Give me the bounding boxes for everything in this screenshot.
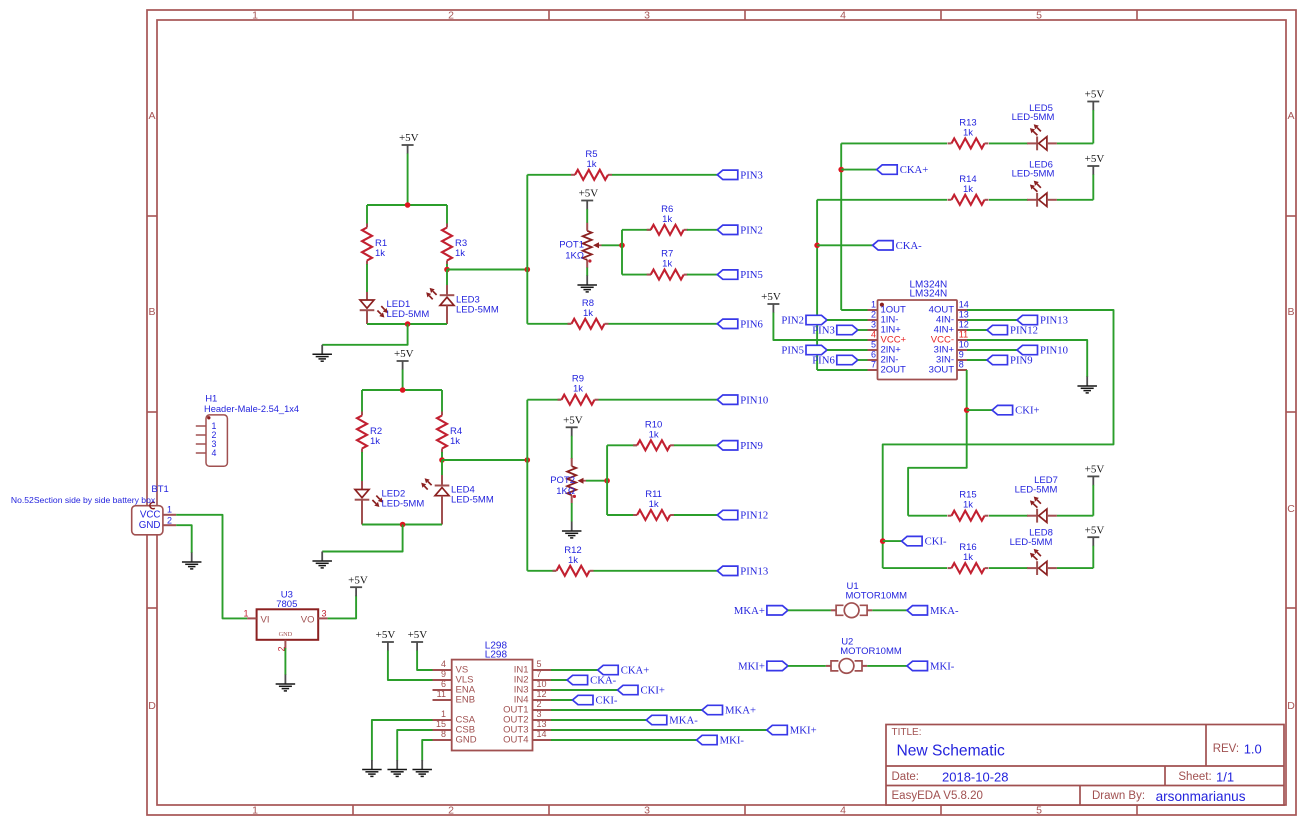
svg-text:5: 5: [537, 659, 542, 669]
wire R7 to PIN5: [687, 274, 717, 276]
wire OUT4 to MKI- flag: [551, 739, 697, 741]
junction CKI-: [880, 538, 886, 544]
wire R10 row left: [607, 444, 637, 446]
net flag MKA- at OUT2: [646, 715, 698, 727]
svg-text:Drawn By:: Drawn By:: [1092, 790, 1145, 802]
wire R13 row: [841, 142, 947, 144]
svg-text:+5V: +5V: [761, 291, 781, 303]
net flag PIN6: [717, 318, 763, 330]
LM324 pin 1 1OUT: [868, 299, 907, 315]
wire R6 row left: [622, 229, 651, 231]
svg-text:MKI-: MKI-: [930, 661, 955, 673]
svg-text:PIN6: PIN6: [812, 355, 835, 367]
+5V power flag LED5: [1085, 89, 1105, 111]
svg-text:3: 3: [644, 10, 650, 22]
column labels bottom: [252, 805, 1042, 817]
svg-text:1: 1: [252, 10, 258, 22]
wire R15 row left: [908, 515, 947, 517]
svg-text:PIN10: PIN10: [740, 394, 768, 406]
junction R4 bottom: [439, 457, 445, 463]
svg-text:LED-5MM: LED-5MM: [451, 495, 494, 506]
svg-text:6: 6: [871, 349, 876, 359]
LED LED8 LED-5MM: [1010, 528, 1057, 575]
svg-text:MKA-: MKA-: [669, 715, 698, 727]
wire R11 row left: [607, 514, 637, 516]
resistor R12: [553, 545, 594, 576]
wire R7 row left: [622, 274, 651, 276]
svg-text:D: D: [148, 700, 156, 712]
svg-text:MKA-: MKA-: [930, 605, 959, 617]
svg-text:2: 2: [448, 10, 454, 22]
H1 pin 4: [196, 448, 217, 458]
L298 pin 4 VS: [433, 659, 469, 675]
wire R1 upper leg: [366, 205, 368, 224]
wire CKI- node to flag: [883, 540, 902, 542]
wire LED3 upper lead: [446, 270, 448, 287]
svg-text:3: 3: [322, 608, 327, 618]
wire POT1 wiper to node: [602, 244, 623, 246]
svg-text:CKA-: CKA-: [896, 240, 923, 252]
wire pin13 to PIN13 flag: [967, 319, 1017, 321]
ground POT2: [562, 522, 582, 538]
svg-text:14: 14: [537, 729, 547, 739]
svg-text:arsonmarianus: arsonmarianus: [1156, 789, 1246, 804]
wire LED5 to +5V: [1057, 142, 1093, 144]
wire PIN2 flag to pin2: [827, 319, 868, 321]
ground BT1: [182, 553, 202, 569]
svg-text:CKA+: CKA+: [621, 665, 650, 677]
resistor R7: [647, 249, 688, 280]
LM324 pin 6 2IN-: [868, 349, 899, 365]
L298 pin 2 OUT1: [503, 699, 551, 715]
svg-text:1k: 1k: [649, 429, 659, 440]
potentiometer POT2 1KOhm: [550, 458, 586, 503]
wire BT1 VCC to U3 VI: [176, 515, 247, 619]
svg-text:2: 2: [167, 515, 172, 525]
svg-text:LED-5MM: LED-5MM: [1012, 169, 1055, 180]
+5V power flag LM324 VCC+: [761, 291, 781, 313]
junction ladder1 top: [405, 202, 411, 208]
LM324 pin 4 VCC+: [868, 329, 907, 345]
svg-text:TITLE:: TITLE:: [892, 727, 922, 738]
resistor R11: [633, 489, 674, 520]
wire U3 pin2 to ground: [284, 648, 286, 675]
U3 pin 3 VO: [301, 608, 328, 625]
U3 pin 2 vertical: [277, 640, 287, 652]
resistor R3: [442, 224, 467, 265]
svg-text:Header-Male-2.54_1x4: Header-Male-2.54_1x4: [204, 404, 299, 414]
svg-text:VCC: VCC: [140, 509, 161, 520]
wire R10 to PIN9: [674, 444, 717, 446]
regulator U3 7805 body: [257, 609, 319, 640]
wire ladder1 to ground: [322, 324, 407, 345]
wire CKA- to flag: [817, 244, 873, 246]
net flag CKA+: [877, 164, 929, 176]
net flag PIN5 to 2IN+: [781, 345, 827, 357]
svg-text:GND: GND: [139, 520, 161, 531]
svg-text:MKA+: MKA+: [734, 605, 765, 617]
svg-text:PIN13: PIN13: [740, 565, 768, 577]
column ticks top band: [353, 10, 1137, 20]
wire PIN3 flag to pin3: [858, 329, 868, 331]
wire R5 to PIN3: [612, 174, 717, 176]
wire R8 to PIN6: [609, 323, 718, 325]
IC L298 body: [452, 660, 533, 751]
junction V1 at ladder1: [525, 267, 531, 273]
net flag PIN2 to 1IN-: [781, 315, 827, 327]
svg-text:CKI+: CKI+: [641, 685, 665, 697]
net flag MKI- at U2: [907, 661, 955, 673]
net flag PIN9: [987, 355, 1033, 367]
wire R14 row: [817, 199, 947, 201]
svg-text:1k: 1k: [662, 259, 672, 270]
wire ladder1 bottom rail: [367, 323, 447, 325]
column labels top: [252, 10, 1042, 22]
LED LED4 LED-5MM: [421, 475, 494, 525]
LM324 pin 10 3IN+: [934, 339, 969, 355]
+5V power flag LED6: [1085, 153, 1105, 175]
junction ladder2 bottom: [400, 522, 406, 528]
+5V power flag L298 VS: [408, 629, 428, 651]
svg-text:PIN10: PIN10: [1040, 345, 1068, 357]
svg-text:C: C: [1287, 503, 1295, 515]
wire +5V to VCC+ pin4: [773, 313, 867, 341]
net flag MKA+ at U1: [734, 605, 788, 617]
net flag CKA-: [873, 240, 923, 252]
wire R14 to LED6: [989, 199, 1028, 201]
svg-text:B: B: [1287, 306, 1294, 318]
svg-text:1: 1: [243, 608, 248, 618]
wire IN4 to CKI- flag: [551, 699, 573, 701]
svg-text:2: 2: [448, 805, 454, 817]
svg-text:LED-5MM: LED-5MM: [382, 498, 425, 509]
resistor R10: [633, 419, 674, 450]
svg-text:POT2: POT2: [550, 475, 575, 486]
wire IN3 to CKI+ flag: [551, 689, 618, 691]
svg-text:1k: 1k: [586, 159, 596, 170]
net flag PIN10: [1017, 345, 1068, 357]
svg-text:ENB: ENB: [456, 695, 476, 706]
wire R6 to PIN2: [687, 229, 717, 231]
junction R3 bottom: [444, 267, 450, 273]
svg-text:4: 4: [871, 329, 876, 339]
wire R4 to node: [441, 452, 443, 460]
wire IN1 to CKA+ flag: [551, 669, 598, 671]
wire R12 to PIN13: [594, 570, 718, 572]
wire OUT3 to MKI+ flag: [551, 729, 767, 731]
L298 pin 3 OUT2: [503, 709, 551, 725]
net flag PIN3 to 1IN+: [812, 325, 858, 337]
net flag CKA- at IN2: [567, 675, 617, 687]
svg-text:1k: 1k: [450, 436, 460, 447]
svg-text:+5V: +5V: [1085, 89, 1105, 101]
svg-text:1: 1: [167, 505, 172, 515]
svg-text:VO: VO: [301, 615, 315, 626]
wire PIN6 flag to pin6: [858, 359, 868, 361]
svg-text:+5V: +5V: [408, 629, 428, 641]
wire R16 to LED8: [989, 567, 1028, 569]
wire pin12 to PIN12 flag: [967, 329, 987, 331]
H1 pin 2: [196, 430, 217, 440]
svg-text:9: 9: [441, 669, 446, 679]
wire ladder1 top rail: [367, 204, 447, 206]
IC LM324N body: [878, 300, 958, 380]
LM324 pin 3 1IN+: [868, 319, 902, 335]
svg-text:CKA+: CKA+: [900, 164, 929, 176]
wire CKA- rail to pin7: [817, 369, 867, 371]
svg-text:12: 12: [537, 689, 547, 699]
svg-text:+5V: +5V: [1085, 464, 1105, 476]
svg-text:1k: 1k: [662, 214, 672, 225]
LED LED7 LED-5MM: [1015, 475, 1058, 522]
wire MKI+ to U2: [788, 665, 826, 667]
LM324 pin 11 VCC-: [931, 329, 968, 345]
wire R5 row left: [527, 174, 571, 176]
motor U2 MOTOR10MM: [826, 636, 902, 673]
wire LED4 upper lead: [441, 460, 443, 476]
net flag MKI+ at U2: [738, 661, 788, 673]
svg-text:1.0: 1.0: [1244, 741, 1262, 756]
resistor R6: [647, 204, 688, 235]
junction CKI+: [964, 407, 970, 413]
svg-text:LED-5MM: LED-5MM: [456, 304, 499, 315]
svg-text:PIN2: PIN2: [781, 315, 804, 327]
wire CKA+ rail vertical: [840, 143, 842, 310]
svg-text:PIN5: PIN5: [781, 345, 804, 357]
net flag PIN5: [717, 269, 763, 281]
+5V power flag ladder1: [399, 132, 419, 154]
svg-text:EasyEDA V5.8.20: EasyEDA V5.8.20: [892, 790, 983, 802]
net flag PIN10: [717, 394, 768, 406]
net flag MKI+ at OUT3: [767, 725, 817, 737]
wire R8 row left: [527, 323, 571, 325]
resistor R2: [357, 412, 382, 453]
LM324 pin 2 1IN-: [868, 309, 899, 325]
svg-text:3OUT: 3OUT: [929, 365, 955, 376]
svg-text:CKI-: CKI-: [596, 695, 618, 707]
junction POT1 node: [619, 243, 625, 249]
svg-text:+5V: +5V: [394, 348, 414, 360]
junction ladder2 top: [400, 387, 406, 393]
wire R9 row left: [527, 399, 561, 401]
LM324 pin 12 4IN+: [934, 319, 969, 335]
svg-text:1k: 1k: [573, 384, 583, 395]
title block outline: [886, 725, 1284, 806]
BT1 pin 2: [163, 515, 176, 525]
resistor R9: [558, 374, 599, 405]
svg-text:PIN9: PIN9: [740, 440, 763, 452]
svg-text:PIN12: PIN12: [1010, 325, 1038, 337]
svg-text:1k: 1k: [375, 248, 385, 259]
wire R11 to PIN12: [674, 514, 717, 516]
row labels left: [148, 110, 156, 712]
svg-text:1KΩ: 1KΩ: [556, 486, 575, 497]
svg-text:A: A: [1287, 110, 1294, 122]
wire CSB to ground: [397, 730, 432, 761]
wire +5V to VS: [417, 651, 432, 671]
svg-text:8: 8: [441, 729, 446, 739]
wire R12 row left: [527, 570, 556, 572]
L298 pin 1 CSA: [433, 709, 476, 725]
ground LM324 VCC-: [1077, 377, 1097, 393]
wire POT1 to ground: [586, 268, 588, 277]
svg-text:B: B: [148, 306, 155, 318]
net flag PIN3: [717, 169, 763, 181]
wire POT2 to ground: [571, 503, 573, 522]
svg-text:5: 5: [1036, 10, 1042, 22]
net flag CKA+ at IN1: [598, 665, 650, 677]
svg-text:CKA-: CKA-: [590, 675, 617, 687]
wire pin8 down to CKI+ node: [908, 370, 967, 516]
svg-text:1k: 1k: [583, 308, 593, 319]
svg-text:1KΩ: 1KΩ: [565, 251, 584, 262]
L298 pin 7 IN2: [514, 669, 551, 685]
L298 pin 9 VLS: [433, 669, 474, 685]
wire ladder2 top rail: [362, 389, 442, 391]
svg-text:REV:: REV:: [1213, 743, 1239, 755]
svg-text:2: 2: [537, 699, 542, 709]
ground POT1: [577, 276, 597, 292]
svg-text:4: 4: [441, 659, 446, 669]
svg-text:1k: 1k: [963, 500, 973, 511]
svg-text:4: 4: [840, 805, 846, 817]
svg-text:VI: VI: [261, 615, 270, 626]
svg-text:1: 1: [871, 299, 876, 309]
net flag MKA- at U1: [907, 605, 959, 617]
svg-text:PIN3: PIN3: [812, 325, 835, 337]
svg-text:1k: 1k: [370, 436, 380, 447]
LM324 pin 14 4OUT: [929, 299, 969, 315]
wire pin10 to PIN10 flag: [967, 349, 1017, 351]
svg-text:5: 5: [871, 339, 876, 349]
wire MKA+ to U1: [788, 609, 831, 611]
svg-text:MKI+: MKI+: [738, 661, 765, 673]
svg-text:PIN3: PIN3: [740, 169, 763, 181]
svg-text:MKA+: MKA+: [725, 705, 756, 717]
svg-text:+5V: +5V: [1085, 153, 1105, 165]
resistor R4: [437, 412, 462, 453]
net flag PIN12: [987, 325, 1038, 337]
svg-text:7805: 7805: [276, 599, 297, 610]
wire VCC- pin11 to ground: [967, 340, 1087, 377]
BT1 pin 1: [163, 505, 176, 515]
resistor R5: [571, 149, 612, 180]
svg-text:1: 1: [441, 709, 446, 719]
svg-text:L298: L298: [485, 649, 508, 660]
svg-text:7: 7: [871, 359, 876, 369]
junction ladder1 bottom: [405, 321, 411, 327]
U3 pin 1 VI: [243, 608, 269, 625]
row ticks left band: [147, 216, 157, 608]
svg-text:2018-10-28: 2018-10-28: [942, 769, 1009, 784]
LED LED2 LED-5MM: [355, 481, 425, 525]
svg-text:OUT4: OUT4: [503, 735, 528, 746]
net flag PIN13: [1017, 315, 1068, 327]
net flag CKI- at IN4: [573, 695, 618, 707]
ground ladder2: [312, 552, 332, 568]
svg-text:7: 7: [537, 669, 542, 679]
resistor R15: [948, 490, 989, 521]
+5V power flag LED7: [1085, 464, 1105, 486]
LED LED1 LED-5MM: [360, 292, 430, 324]
wire GND pin to ground: [422, 740, 432, 761]
svg-text:PIN13: PIN13: [1040, 315, 1068, 327]
+5V power flag ladder2: [394, 348, 414, 370]
net flag CKI-: [902, 536, 947, 548]
L298 pin 6 ENA: [433, 679, 476, 695]
svg-text:+5V: +5V: [563, 415, 583, 427]
wire BT1 GND to ground: [176, 525, 192, 553]
LM324 pin 13 4IN-: [936, 309, 969, 325]
net flag PIN6 to 2IN-: [812, 355, 858, 367]
svg-text:New Schematic: New Schematic: [897, 742, 1006, 759]
svg-text:10: 10: [537, 679, 547, 689]
wire node to V1 rail: [447, 269, 527, 271]
wire POT2 node vertical: [606, 445, 608, 515]
LED LED3 LED-5MM: [426, 285, 499, 324]
ground L298 GND: [412, 760, 432, 776]
junction CKA+: [838, 167, 844, 173]
svg-text:1k: 1k: [568, 555, 578, 566]
H1 pin 3: [196, 439, 217, 449]
+5V power flag L298 VLS: [376, 629, 396, 651]
svg-text:1k: 1k: [649, 499, 659, 510]
svg-text:GND: GND: [456, 735, 477, 746]
svg-text:PIN6: PIN6: [740, 318, 763, 330]
svg-text:POT1: POT1: [559, 240, 584, 251]
svg-text:PIN5: PIN5: [740, 269, 763, 281]
wire LED7 to +5V: [1057, 515, 1093, 517]
L298 pin 8 GND: [433, 729, 477, 745]
column ticks bottom band: [353, 805, 1137, 815]
svg-text:+5V: +5V: [376, 629, 396, 641]
wire R4 upper leg: [441, 390, 443, 412]
wire R3 to node: [446, 264, 448, 270]
svg-text:1: 1: [252, 805, 258, 817]
svg-text:4: 4: [212, 448, 217, 458]
svg-text:13: 13: [537, 719, 547, 729]
svg-text:5: 5: [1036, 805, 1042, 817]
svg-text:2OUT: 2OUT: [881, 365, 907, 376]
svg-text:CKI+: CKI+: [1015, 405, 1039, 417]
svg-text:BT1: BT1: [151, 484, 168, 495]
net flag CKI+: [992, 405, 1039, 417]
svg-text:H1: H1: [205, 393, 217, 404]
svg-text:MOTOR10MM: MOTOR10MM: [840, 646, 902, 657]
wire PIN5 flag to pin5: [827, 349, 868, 351]
wire LED6 to +5V: [1057, 199, 1093, 201]
svg-text:PIN9: PIN9: [1010, 355, 1033, 367]
svg-text:LM324N: LM324N: [909, 289, 947, 300]
svg-text:4: 4: [840, 10, 846, 22]
svg-text:1k: 1k: [963, 127, 973, 138]
svg-text:+5V: +5V: [348, 574, 368, 586]
potentiometer POT1 1KOhm: [559, 223, 601, 268]
net flag PIN9: [717, 440, 763, 452]
svg-text:LED-5MM: LED-5MM: [1010, 537, 1053, 548]
wire R2 to LED2: [361, 452, 363, 482]
L298 pin 12 IN4: [514, 689, 551, 705]
wire OUT2 to MKA- flag: [551, 719, 646, 721]
svg-text:PIN12: PIN12: [740, 510, 768, 522]
wire CKI+ node to flag: [967, 409, 992, 411]
wire R1 to LED1: [366, 264, 368, 293]
L298 pin 11 ENB: [433, 689, 476, 705]
svg-text:PIN2: PIN2: [740, 224, 763, 236]
ground L298 CSA: [362, 760, 382, 776]
net flag MKI- at OUT4: [697, 735, 745, 747]
svg-text:11: 11: [959, 329, 968, 339]
